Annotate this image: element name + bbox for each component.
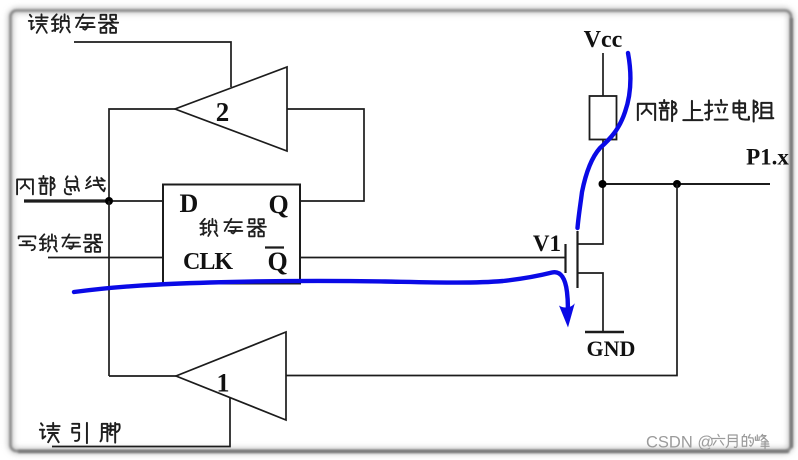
junction: drain node bbox=[599, 180, 607, 188]
wire: node down to buffer1 input bbox=[286, 184, 677, 376]
transistor V1 (NMOS) gate bar bbox=[564, 244, 566, 273]
ground symbol bbox=[585, 331, 624, 334]
label 锁存器 (latch) bbox=[200, 219, 266, 237]
resistor R (internal pull-up) bbox=[590, 96, 617, 140]
svg-text:P1.x: P1.x bbox=[746, 145, 789, 170]
wire: P1.x pin line bbox=[603, 183, 770, 185]
label 读引脚 (read pin) bbox=[40, 423, 120, 443]
svg-text:CSDN @: CSDN @ bbox=[646, 434, 714, 452]
wire: Vcc to resistor bbox=[602, 53, 604, 96]
blue annotation arrow to V1 bbox=[74, 272, 568, 309]
wire: latch Q-bar to V1 gate bbox=[300, 257, 565, 259]
label 内部总线 (internal bus) bbox=[17, 176, 105, 195]
junction: internal bus node bbox=[105, 197, 113, 205]
svg-text:Q: Q bbox=[269, 190, 289, 219]
junction: P1.x branch node bbox=[673, 180, 681, 188]
svg-text:CLK: CLK bbox=[183, 249, 233, 275]
wire: buffer1 output to bus bbox=[109, 375, 176, 377]
wire: read-pin control line bbox=[52, 398, 230, 447]
wire: buffer2 output to internal bus bbox=[109, 109, 175, 201]
svg-text:2: 2 bbox=[216, 97, 230, 127]
label 写锁存器 (write latch) bbox=[19, 234, 103, 252]
svg-text:GND: GND bbox=[587, 336, 636, 361]
wire: bus to latch D input bbox=[112, 200, 163, 202]
label 内部上拉电阻 (internal pull-up resistor) bbox=[638, 100, 773, 122]
svg-text:1: 1 bbox=[217, 369, 230, 398]
latch U3 (锁存器) box bbox=[163, 185, 300, 284]
wire: read-latch control line bbox=[74, 42, 231, 87]
svg-text:Q: Q bbox=[268, 247, 288, 276]
svg-text:Vcc: Vcc bbox=[584, 27, 623, 53]
wire: resistor to P1.x node bbox=[602, 140, 604, 185]
wire: V1 drain up to P1.x node bbox=[578, 184, 604, 244]
wire: V1 source down to ground bbox=[578, 273, 604, 332]
buffer U1 (read pin) bbox=[176, 332, 286, 420]
transistor V1 channel bar bbox=[576, 231, 578, 288]
label 读锁存器 (read latch) bbox=[29, 14, 118, 32]
wire: internal bus (thick segment) bbox=[24, 199, 112, 202]
wire: latch Q to buffer2 input bbox=[287, 109, 364, 201]
wire: bus node down to buffer1 output bbox=[108, 201, 110, 376]
buffer U2 (tri-state, read latch) bbox=[175, 67, 287, 151]
svg-text:D: D bbox=[180, 189, 199, 218]
svg-text:V1: V1 bbox=[533, 231, 561, 256]
wire: write-latch to CLK bbox=[48, 257, 163, 259]
blue annotation curve over pull-up resistor bbox=[578, 53, 631, 228]
